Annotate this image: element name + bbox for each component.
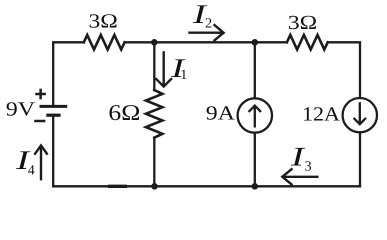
- current source U1 9A circle: [238, 98, 272, 132]
- wire 9A branch lower: [254, 133, 256, 187]
- node dot top-middle: [151, 39, 158, 46]
- battery V1 9V short plate (-): [46, 114, 60, 117]
- wire middle branch upper (node to 6ohm): [153, 42, 155, 90]
- current arrow I1 (down, inside middle branch): [155, 51, 172, 86]
- svg-text:9A: 9A: [206, 103, 236, 125]
- svg-text:1: 1: [180, 68, 187, 83]
- svg-text:4: 4: [28, 164, 35, 179]
- wire top-right: to corner and down to 12A source: [328, 42, 360, 98]
- svg-text:2: 2: [205, 17, 212, 32]
- resistor R3 6ohm (vertical zigzag): [146, 90, 163, 138]
- wire top-left: left rail up and top to R1: [53, 42, 84, 105]
- battery minus sign: [34, 120, 45, 123]
- svg-text:6Ω: 6Ω: [108, 100, 140, 125]
- current arrow I2 (right, above top wire): [188, 24, 223, 41]
- wire bottom rail thick overlap segment: [108, 185, 127, 188]
- svg-text:12A: 12A: [302, 103, 341, 125]
- wire top middle (R1 to R2): [125, 41, 287, 43]
- node dot top-right-of-middle: [252, 39, 259, 46]
- svg-text:9V: 9V: [6, 99, 36, 121]
- current source U2 12A circle: [343, 98, 377, 132]
- resistor R1 3ohm (top-left zigzag): [84, 35, 125, 50]
- wire middle branch lower (6ohm to bottom node): [153, 138, 155, 187]
- current source U2 12A arrow (down): [354, 102, 366, 124]
- node dot bottom-right-of-middle: [252, 183, 259, 190]
- wire left below battery: [52, 117, 54, 187]
- battery plus sign: [35, 89, 46, 100]
- svg-text:3: 3: [305, 160, 312, 175]
- current source U1 9A arrow (up): [249, 106, 261, 128]
- wire right below 12A source: [359, 132, 361, 186]
- resistor R2 3ohm (top-right zigzag): [287, 35, 328, 50]
- current arrow I3 (left, above bottom wire): [282, 168, 318, 185]
- wire bottom rail: [53, 185, 360, 187]
- wire 9A branch upper: [254, 42, 256, 98]
- battery V1 9V long plate (+): [40, 105, 68, 108]
- svg-text:3Ω: 3Ω: [89, 11, 118, 33]
- svg-text:3Ω: 3Ω: [288, 12, 317, 34]
- node dot bottom-middle: [151, 183, 158, 190]
- current arrow I4 (up, left of bottom-left corner): [34, 145, 47, 180]
